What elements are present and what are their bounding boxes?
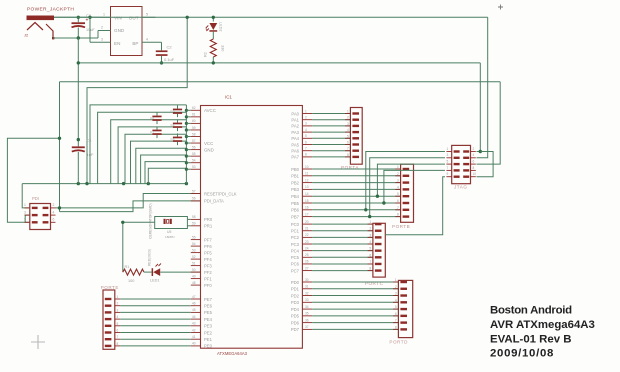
- svg-text:5: 5: [369, 247, 371, 251]
- svg-text:2: 2: [369, 227, 371, 231]
- svg-text:53: 53: [192, 248, 196, 252]
- svg-text:3: 3: [347, 122, 349, 126]
- svg-text:U5: U5: [167, 230, 171, 234]
- svg-text:8: 8: [369, 267, 371, 271]
- svg-text:C7: C7: [150, 130, 154, 134]
- capacitor C8 (input): [72, 14, 96, 38]
- junction PB5 tap: [382, 201, 385, 204]
- IC power pin stubs: [186, 110, 200, 169]
- svg-text:23: 23: [305, 240, 309, 244]
- svg-text:POWER_JACKPTH: POWER_JACKPTH: [27, 7, 74, 13]
- wire GND drop to JTAG pin2: [477, 63, 481, 152]
- svg-text:32: 32: [305, 291, 309, 295]
- wire R2 to GND rail: [212, 57, 214, 63]
- capacitor C2: [156, 42, 175, 63]
- svg-text:58: 58: [192, 215, 196, 219]
- svg-text:PB4: PB4: [291, 194, 300, 199]
- svg-text:7: 7: [447, 166, 449, 170]
- svg-text:1: 1: [117, 295, 119, 299]
- IC U2 ATXMEGA64A3: [201, 95, 303, 357]
- svg-text:48: 48: [192, 281, 196, 285]
- IC RESET/PDI/PR/PF stubs: [191, 194, 201, 346]
- wire jack sleeve: [53, 37, 98, 39]
- wire U1 GND pin: [97, 31, 99, 39]
- wire rail2 to PDI pin1: [22, 184, 29, 208]
- svg-text:8: 8: [117, 342, 119, 346]
- wire PDI pin3 jog: [25, 215, 29, 222]
- svg-text:C4: C4: [171, 123, 175, 127]
- svg-text:4: 4: [305, 128, 307, 132]
- svg-text:27: 27: [305, 266, 309, 270]
- resistor R1: [123, 265, 144, 283]
- svg-text:3: 3: [101, 37, 103, 41]
- svg-text:8: 8: [395, 325, 397, 329]
- junction rail2 c: [122, 182, 125, 185]
- voltage regulator U1: [111, 7, 143, 56]
- svg-text:PA6: PA6: [291, 149, 299, 154]
- wire PDI loop outer: [7, 138, 59, 222]
- svg-text:5: 5: [447, 160, 449, 164]
- svg-text:100: 100: [128, 279, 134, 283]
- svg-text:PA5: PA5: [291, 142, 299, 147]
- wire VIN rail: [54, 16, 488, 18]
- svg-text:56: 56: [192, 197, 196, 201]
- svg-text:59: 59: [192, 222, 196, 226]
- wire R1-LED1: [144, 271, 152, 273]
- svg-text:1: 1: [103, 13, 105, 17]
- svg-text:PB5: PB5: [291, 201, 300, 206]
- wire JTAG pin9 run: [385, 177, 445, 235]
- svg-text:4: 4: [347, 128, 349, 132]
- svg-text:55: 55: [192, 152, 196, 156]
- svg-text:PF2: PF2: [204, 270, 212, 275]
- svg-text:42: 42: [192, 328, 196, 332]
- svg-text:3: 3: [369, 233, 371, 237]
- svg-text:PF0: PF0: [204, 283, 212, 288]
- svg-text:PA1: PA1: [291, 118, 299, 123]
- svg-text:PDI: PDI: [32, 196, 39, 201]
- capacitor C3: [171, 105, 183, 117]
- svg-text:34: 34: [305, 305, 309, 309]
- wire RESET drop to JTAG pin6: [477, 82, 501, 164]
- svg-text:2: 2: [53, 203, 55, 207]
- svg-text:PF3: PF3: [204, 263, 212, 268]
- svg-text:5: 5: [117, 322, 119, 326]
- connector PORTB: [392, 164, 414, 229]
- svg-text:6: 6: [473, 160, 475, 164]
- wire RESET to IC: [56, 194, 201, 208]
- svg-text:RED(0603): RED(0603): [148, 249, 152, 266]
- svg-text:PF7: PF7: [204, 237, 212, 242]
- junction C2/GND rail: [160, 61, 163, 64]
- svg-text:52: 52: [192, 255, 196, 259]
- svg-text:24: 24: [305, 246, 309, 250]
- svg-text:1: 1: [24, 203, 26, 207]
- svg-text:PE4: PE4: [204, 317, 213, 322]
- svg-text:PA7: PA7: [291, 155, 299, 160]
- connector JTAG: [446, 145, 476, 189]
- connector PDI: [24, 196, 56, 230]
- junctions on VCC bus: [185, 109, 188, 171]
- svg-text:40: 40: [192, 342, 196, 346]
- junction rail2 d: [147, 182, 150, 185]
- svg-text:43: 43: [192, 322, 196, 326]
- U1 pin numbers: [101, 13, 148, 42]
- power jack J2: [24, 16, 54, 40]
- svg-text:PR0: PR0: [204, 217, 213, 222]
- svg-text:6: 6: [369, 253, 371, 257]
- wires PB0-PB7: [312, 169, 401, 217]
- svg-text:PE5: PE5: [204, 310, 213, 315]
- svg-text:GND: GND: [114, 28, 125, 33]
- svg-text:6: 6: [305, 140, 307, 144]
- wires PB to JTAG: [366, 152, 445, 217]
- svg-text:1: 1: [305, 109, 307, 113]
- svg-text:45: 45: [192, 308, 196, 312]
- svg-text:GND: GND: [204, 147, 214, 152]
- svg-text:VCC: VCC: [204, 141, 213, 146]
- svg-text:4: 4: [53, 210, 55, 214]
- svg-text:PC2: PC2: [291, 235, 300, 240]
- bus vertical at IC left: [185, 105, 187, 184]
- svg-text:0.1uF: 0.1uF: [164, 57, 175, 62]
- svg-text:OUT: OUT: [129, 16, 139, 21]
- svg-text:3: 3: [305, 122, 307, 126]
- junction EN/VIN: [88, 16, 91, 19]
- junction RESET tap: [58, 206, 61, 209]
- svg-text:PC3: PC3: [291, 242, 300, 247]
- svg-text:1uF: 1uF: [87, 152, 94, 157]
- svg-text:PA4: PA4: [291, 136, 299, 141]
- svg-text:PD0: PD0: [291, 280, 300, 285]
- junction C1 crossing: [77, 138, 80, 141]
- svg-text:C6: C6: [150, 116, 154, 120]
- resistor R2: [204, 39, 225, 57]
- junction VIN/drop: [186, 16, 189, 19]
- svg-text:1: 1: [395, 278, 397, 282]
- svg-text:21: 21: [305, 227, 309, 231]
- svg-text:6: 6: [117, 329, 119, 333]
- svg-text:6: 6: [395, 312, 397, 316]
- svg-text:30: 30: [305, 278, 309, 282]
- svg-text:7: 7: [395, 319, 397, 323]
- svg-text:14: 14: [305, 192, 309, 196]
- svg-text:PD3: PD3: [291, 300, 300, 305]
- svg-text:RESET/PDI_CLK: RESET/PDI_CLK: [204, 191, 237, 196]
- wire LED1 to PF2: [160, 271, 200, 273]
- svg-text:+: +: [86, 18, 89, 24]
- svg-text:50: 50: [192, 268, 196, 272]
- svg-text:PC0: PC0: [291, 222, 300, 227]
- connector PORTD: [389, 278, 412, 344]
- wire lower VCC rail: [22, 183, 186, 185]
- svg-text:54: 54: [192, 242, 196, 246]
- wire LED2 to R2: [212, 32, 214, 39]
- svg-text:56: 56: [192, 145, 196, 149]
- svg-text:LED2: LED2: [219, 22, 223, 32]
- wire supply nest: [90, 105, 186, 184]
- IC left pin names: [204, 108, 237, 349]
- svg-text:CERESONATOR(SMD): CERESONATOR(SMD): [149, 203, 153, 239]
- svg-text:11: 11: [305, 172, 309, 176]
- svg-text:47: 47: [192, 295, 196, 299]
- svg-text:8: 8: [305, 153, 307, 157]
- svg-text:R2: R2: [204, 52, 208, 57]
- capacitor C7: [150, 126, 162, 138]
- svg-text:PC5: PC5: [291, 255, 300, 260]
- svg-text:4: 4: [395, 298, 397, 302]
- svg-text:C1: C1: [87, 138, 93, 143]
- svg-text:1: 1: [397, 165, 399, 169]
- svg-text:PE6: PE6: [204, 304, 213, 309]
- svg-text:60: 60: [192, 119, 196, 123]
- svg-text:2: 2: [101, 26, 103, 30]
- svg-text:7: 7: [305, 147, 307, 151]
- wire RESET rail left drop: [59, 82, 61, 212]
- title text: [490, 304, 595, 359]
- svg-text:PC4: PC4: [291, 248, 300, 253]
- svg-text:PC6: PC6: [291, 262, 300, 267]
- svg-text:15: 15: [305, 199, 309, 203]
- svg-text:46: 46: [192, 302, 196, 306]
- svg-text:54: 54: [192, 159, 196, 163]
- svg-text:10uF: 10uF: [86, 28, 95, 32]
- svg-text:8: 8: [397, 213, 399, 217]
- svg-text:20: 20: [305, 220, 309, 224]
- svg-text:PA3: PA3: [291, 130, 299, 135]
- svg-text:5: 5: [24, 218, 26, 222]
- svg-text:ATXMEGA64A3: ATXMEGA64A3: [217, 351, 248, 356]
- junction LED2/VIN: [212, 16, 215, 19]
- junction rail2 e: [185, 182, 188, 185]
- svg-text:PF6: PF6: [204, 244, 212, 249]
- svg-text:59: 59: [192, 126, 196, 130]
- wire RESET rail: [60, 81, 501, 83]
- svg-text:PE7: PE7: [204, 297, 213, 302]
- svg-text:PE2: PE2: [204, 330, 213, 335]
- wire resonator loop: [123, 217, 191, 229]
- wires PE0-PE7: [120, 299, 191, 346]
- junction PB6 tap: [364, 208, 367, 211]
- svg-text:5: 5: [395, 305, 397, 309]
- svg-text:PD6: PD6: [291, 320, 300, 325]
- wire PDI_DATA to IC: [60, 201, 201, 212]
- wire VIN to lower rail: [87, 17, 187, 183]
- svg-text:25: 25: [305, 253, 309, 257]
- svg-text:PA0: PA0: [291, 111, 299, 116]
- connector PORTE: [101, 285, 120, 349]
- svg-text:5: 5: [347, 134, 349, 138]
- LED D1: [148, 249, 161, 282]
- svg-text:5: 5: [146, 13, 148, 17]
- connector PORTC: [365, 220, 385, 286]
- wires PC0-PC7: [312, 224, 373, 270]
- wire VIN drop to JTAG pin4: [477, 17, 488, 158]
- svg-text:PORTB: PORTB: [392, 224, 410, 229]
- power jack J2 label: [27, 7, 74, 13]
- svg-text:PB2: PB2: [291, 180, 300, 185]
- svg-text:2: 2: [305, 116, 307, 120]
- capacitor C6: [150, 112, 162, 124]
- svg-text:PB6: PB6: [291, 208, 300, 213]
- svg-text:4: 4: [146, 37, 148, 41]
- svg-text:4: 4: [473, 153, 475, 157]
- svg-text:61: 61: [192, 113, 196, 117]
- svg-text:17: 17: [305, 212, 309, 216]
- svg-text:Boston Android: Boston Android: [490, 304, 572, 316]
- svg-text:PE1: PE1: [204, 337, 213, 342]
- svg-text:PB7: PB7: [291, 214, 300, 219]
- svg-text:PA2: PA2: [291, 124, 299, 129]
- svg-text:49: 49: [192, 274, 196, 278]
- svg-text:2: 2: [395, 285, 397, 289]
- svg-text:3: 3: [24, 210, 26, 214]
- svg-text:PORTD: PORTD: [389, 339, 408, 344]
- svg-text:16: 16: [305, 206, 309, 210]
- svg-text:3: 3: [395, 292, 397, 296]
- svg-text:4: 4: [117, 315, 119, 319]
- svg-text:PDI_DATA: PDI_DATA: [204, 199, 224, 204]
- svg-text:26: 26: [305, 260, 309, 264]
- svg-text:12: 12: [305, 178, 309, 182]
- svg-text:PE0: PE0: [204, 344, 213, 349]
- IC right pin stubs: [302, 114, 312, 330]
- svg-text:AVR ATXmega64A3: AVR ATXmega64A3: [490, 319, 595, 331]
- capacitor C4: [171, 119, 183, 131]
- svg-text:5: 5: [305, 134, 307, 138]
- IC right pin names: [291, 111, 300, 332]
- svg-text:330: 330: [221, 45, 225, 51]
- svg-text:2: 2: [397, 172, 399, 176]
- svg-text:PC7: PC7: [291, 268, 300, 273]
- svg-text:55: 55: [192, 235, 196, 239]
- svg-text:36: 36: [305, 318, 309, 322]
- svg-text:1: 1: [369, 220, 371, 224]
- svg-text:9: 9: [447, 172, 449, 176]
- svg-text:53: 53: [192, 165, 196, 169]
- svg-text:IC1: IC1: [225, 95, 232, 100]
- svg-text:6: 6: [53, 218, 55, 222]
- wires PD0-PD7: [312, 282, 398, 329]
- svg-text:R1: R1: [125, 265, 130, 269]
- svg-text:41: 41: [192, 335, 196, 339]
- junction PB4 tap: [376, 195, 379, 198]
- resonator Q1: [149, 203, 176, 239]
- svg-text:C5: C5: [171, 137, 175, 141]
- svg-text:62: 62: [192, 106, 196, 110]
- svg-text:16MHz: 16MHz: [165, 235, 175, 239]
- junction JTAG pin2 node: [479, 150, 482, 153]
- svg-text:AVCC: AVCC: [204, 108, 216, 113]
- svg-text:3: 3: [397, 179, 399, 183]
- svg-text:PB0: PB0: [291, 167, 300, 172]
- svg-text:PD5: PD5: [291, 314, 300, 319]
- U1 pin stubs: [90, 17, 162, 42]
- svg-text:35: 35: [305, 312, 309, 316]
- wire GND rail: [78, 62, 480, 64]
- svg-text:PB3: PB3: [291, 187, 300, 192]
- svg-text:JTAG: JTAG: [454, 185, 467, 190]
- svg-text:8: 8: [473, 166, 475, 170]
- IC pin numbers: [192, 106, 309, 346]
- svg-text:37: 37: [305, 325, 309, 329]
- svg-text:1: 1: [447, 147, 449, 151]
- svg-text:LED1: LED1: [150, 279, 160, 283]
- svg-text:13: 13: [305, 185, 309, 189]
- wire LED2 feed: [212, 17, 214, 21]
- svg-text:EN: EN: [114, 41, 120, 46]
- svg-text:57: 57: [192, 139, 196, 143]
- junction R2/GND rail: [212, 61, 215, 64]
- junction loop/RESET: [58, 137, 61, 140]
- svg-text:PE3: PE3: [204, 324, 213, 329]
- svg-text:10: 10: [305, 165, 309, 169]
- svg-text:7: 7: [347, 147, 349, 151]
- svg-text:7: 7: [397, 206, 399, 210]
- svg-text:8: 8: [347, 153, 349, 157]
- svg-text:C2: C2: [167, 44, 173, 49]
- svg-text:6: 6: [347, 141, 349, 145]
- junction jack/C8 top: [77, 16, 80, 19]
- svg-text:5: 5: [397, 192, 399, 196]
- svg-text:22: 22: [305, 233, 309, 237]
- svg-text:PD7: PD7: [291, 327, 300, 332]
- svg-text:PD2: PD2: [291, 293, 300, 298]
- wires PA0-PA7: [312, 114, 350, 157]
- svg-text:44: 44: [192, 315, 196, 319]
- capacitor C5: [171, 133, 183, 145]
- wire jack tip to VIN rail: [54, 16, 101, 18]
- svg-text:7: 7: [117, 335, 119, 339]
- svg-text:2: 2: [347, 116, 349, 120]
- capacitor C1: [72, 138, 94, 184]
- junction C8 bottom: [77, 36, 80, 39]
- svg-text:4: 4: [369, 240, 371, 244]
- junction rail2 b: [77, 182, 80, 185]
- svg-text:PF1: PF1: [204, 276, 212, 281]
- wire C8-to-C1 vertical: [77, 38, 79, 146]
- wire R1 ground: [122, 222, 124, 272]
- junction rail2 a: [85, 182, 88, 185]
- svg-text:3: 3: [117, 308, 119, 312]
- svg-text:1: 1: [347, 110, 349, 114]
- svg-text:4: 4: [397, 185, 399, 189]
- svg-text:57: 57: [192, 189, 196, 193]
- svg-text:3: 3: [447, 153, 449, 157]
- svg-text:31: 31: [305, 285, 309, 289]
- junction at GND rail: [77, 61, 80, 64]
- svg-text:2: 2: [473, 147, 475, 151]
- svg-text:51: 51: [192, 261, 196, 265]
- svg-text:PF4: PF4: [204, 257, 212, 262]
- wire U1 EN to VIN: [89, 17, 91, 42]
- junction R1/resonator gnd: [121, 221, 124, 224]
- svg-text:33: 33: [305, 298, 309, 302]
- svg-text:58: 58: [192, 132, 196, 136]
- svg-text:2: 2: [117, 302, 119, 306]
- svg-text:PORTE: PORTE: [101, 285, 119, 290]
- svg-text:PC1: PC1: [291, 229, 300, 234]
- svg-text:2009/10/08: 2009/10/08: [490, 348, 554, 360]
- svg-text:PD4: PD4: [291, 307, 300, 312]
- svg-text:EVAL-01 Rev B: EVAL-01 Rev B: [490, 334, 571, 346]
- svg-text:10: 10: [473, 172, 477, 176]
- svg-text:7: 7: [369, 260, 371, 264]
- origin cross: [31, 335, 45, 349]
- connector PORTA: [341, 108, 362, 170]
- svg-text:VIN: VIN: [114, 16, 122, 21]
- junction PB7 tap: [368, 215, 371, 218]
